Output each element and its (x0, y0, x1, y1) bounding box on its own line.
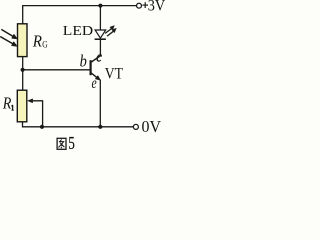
label R1 (2, 94, 14, 113)
photoresistor RG body (18, 24, 28, 57)
label RG (32, 32, 48, 51)
wire: bottom rail from R1 bottom to 0V terminal (23, 122, 134, 127)
junction node: emitter / bottom rail (98, 125, 102, 129)
svg-text:e: e (92, 75, 97, 92)
LED cathode bar (95, 38, 106, 40)
svg-text:b: b (80, 52, 87, 71)
wire: base wire from RG/R1 junction to base bar (23, 69, 91, 71)
junction node: wiper / bottom rail (40, 125, 44, 129)
junction node: top rail / LED branch (98, 4, 102, 8)
terminal 0V (open circle) (133, 124, 138, 129)
terminal +3V (open circle) (137, 3, 142, 8)
svg-text:0V: 0V (142, 117, 162, 136)
LED light emission arrow 1 (105, 26, 114, 34)
svg-text:c: c (96, 49, 102, 65)
svg-text:VT: VT (105, 66, 124, 83)
wire: top rail from RG top to +3V terminal (23, 6, 137, 24)
svg-text:R: R (32, 32, 42, 51)
wire: emitter down to bottom rail (99, 80, 101, 127)
svg-text:3V: 3V (148, 0, 166, 15)
R1 wiper arrow (28, 99, 43, 127)
wire: RG bottom to R1 top (through junction) (22, 57, 24, 91)
transistor VT base bar (89, 60, 91, 75)
potentiometer R1 body (17, 90, 27, 122)
wire: LED branch down from top rail (99, 6, 101, 30)
wire: LED cathode to transistor collector (99, 39, 101, 56)
svg-text:5: 5 (68, 133, 75, 153)
junction node: RG bottom / R1 top / base wire (21, 68, 25, 72)
light arrow 2 onto RG (0, 37, 17, 47)
LED diode triangle (anode) (95, 30, 106, 38)
svg-text:G: G (42, 39, 48, 49)
label +3V (142, 2, 148, 8)
LED light emission arrow 2 (107, 28, 116, 36)
transistor VT collector diagonal (91, 56, 101, 63)
transistor VT emitter diagonal with arrow (91, 73, 101, 81)
svg-text:R: R (2, 94, 12, 113)
light arrow 1 onto RG (1, 29, 17, 39)
caption: character 图 (drawn) (57, 138, 66, 149)
svg-text:LED: LED (63, 23, 94, 38)
